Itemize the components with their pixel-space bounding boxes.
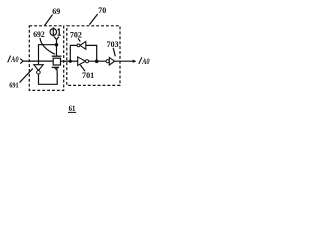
arrowhead filled output	[133, 60, 137, 63]
phi1 label digit 1	[58, 29, 61, 36]
inverter 701 bubble	[85, 60, 88, 63]
wire latch node to 701 input	[70, 60, 77, 62]
svg-text:703: 703	[107, 40, 119, 49]
leader for label 702	[78, 38, 80, 41]
inverter 691 bubble	[37, 71, 41, 75]
svg-text:691: 691	[9, 81, 19, 90]
box 69 dashed	[29, 26, 63, 91]
wire latch node up and top wire to 702 bubble	[70, 45, 77, 61]
box 70 dashed	[67, 26, 120, 86]
inverter 703 input bubble	[106, 60, 109, 63]
inverter 702 bubble	[77, 44, 80, 47]
transistor 692 bottom gate bar	[52, 66, 59, 68]
wire phi1 down to gate of 692	[56, 40, 58, 57]
junction dot latch output node	[95, 60, 99, 64]
wire 701 output to 703 input bubble	[89, 60, 107, 62]
transistor 692 box	[53, 58, 60, 65]
arrowhead open V input	[20, 59, 23, 64]
transistor 692 top gate bar	[52, 55, 62, 57]
inverter 691 triangle pointing down	[34, 65, 43, 71]
clock phi1 symbol stem	[52, 27, 54, 36]
wire phi1 branch left and down to 691 input	[39, 45, 57, 65]
wire U feedback from 691 output to bottom gate	[39, 70, 58, 84]
svg-text:69: 69	[52, 7, 60, 16]
wire 702 back to right corner down to output node	[86, 45, 97, 61]
label /A0 input	[8, 56, 11, 63]
inverter 703 triangle pointing right	[109, 57, 114, 65]
leader for label 70	[89, 14, 97, 25]
label /A0 output	[139, 57, 142, 64]
leader for label 701	[80, 65, 85, 71]
svg-text:702: 702	[70, 31, 82, 40]
junction dot latch input node	[69, 60, 72, 63]
leader for label 691	[20, 69, 33, 83]
wire 703 output crossing box edge	[115, 60, 134, 62]
inverter 702 triangle pointing left	[80, 41, 86, 49]
svg-text:A0: A0	[10, 55, 18, 64]
arrowhead filled at bottom gate of 692	[54, 68, 58, 71]
leader for label 703	[113, 48, 115, 57]
leader for label 692	[40, 38, 55, 55]
svg-text:61: 61	[69, 103, 76, 113]
arrowhead open V on phi1 wire	[54, 37, 59, 40]
junction dot phi1 branch	[55, 43, 59, 47]
svg-text:692: 692	[33, 30, 45, 39]
figure number underline	[68, 111, 76, 113]
svg-text:A0: A0	[141, 57, 149, 66]
wire 692 to latch node	[61, 60, 71, 62]
svg-text:70: 70	[98, 6, 106, 15]
inverter 701 triangle pointing right	[78, 57, 86, 66]
wire input /A0	[23, 60, 53, 62]
leader for label 69	[45, 15, 53, 26]
svg-text:701: 701	[82, 71, 94, 80]
clock phi1 symbol circle	[50, 29, 56, 36]
